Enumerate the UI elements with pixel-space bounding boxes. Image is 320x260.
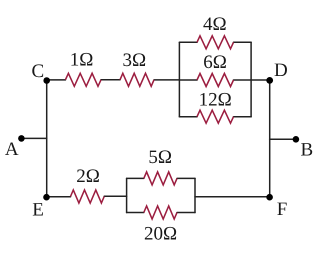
wire E to R2 [47, 196, 71, 198]
svg-text:B: B [300, 139, 313, 160]
node F junction dot [266, 194, 273, 201]
wire 5ohm row right stub [177, 177, 195, 179]
wire 5ohm row left stub [127, 177, 144, 179]
wire tap to terminal B [270, 138, 296, 140]
wire box to node D [251, 79, 270, 81]
resistor 20ohm [144, 206, 177, 219]
wire right rail of 5/20 parallel box [194, 178, 196, 212]
wire left rail of 5/20 parallel box [126, 178, 128, 212]
wire 4ohm row right stub [234, 41, 252, 43]
resistor 5ohm [144, 172, 177, 185]
wire C to R1 [47, 79, 66, 81]
svg-text:6Ω: 6Ω [203, 52, 227, 73]
wire 20ohm row left stub [127, 212, 144, 214]
resistor 12ohm [197, 110, 234, 123]
wire right rail of 4/6/12 parallel box [250, 42, 252, 116]
wire 6ohm row left stub [179, 79, 197, 81]
node C junction dot [43, 77, 50, 84]
wire 12ohm row left stub [179, 116, 197, 118]
node D junction dot [266, 77, 273, 84]
svg-text:2Ω: 2Ω [76, 166, 100, 187]
wire terminal A tap [21, 137, 46, 139]
wire left rail C to E [46, 80, 48, 197]
svg-text:F: F [277, 199, 288, 220]
svg-text:3Ω: 3Ω [122, 50, 146, 71]
wire R1 to R3 [101, 79, 120, 81]
svg-text:12Ω: 12Ω [199, 89, 232, 110]
wire 12ohm row right stub [234, 116, 252, 118]
svg-text:5Ω: 5Ω [148, 147, 172, 168]
resistor 2ohm [71, 190, 105, 203]
terminal A dot [18, 135, 25, 142]
resistor 3ohm [120, 73, 154, 86]
svg-text:1Ω: 1Ω [70, 49, 94, 70]
wire box to node F [195, 196, 270, 198]
wire 6ohm row right stub [234, 79, 252, 81]
wire left rail of 4/6/12 parallel box [178, 42, 180, 116]
wire right rail D to F [269, 80, 271, 197]
resistor 4ohm [197, 36, 234, 49]
resistor 6ohm [197, 74, 234, 87]
node E junction dot [43, 194, 50, 201]
svg-text:A: A [5, 139, 19, 160]
svg-text:E: E [32, 200, 44, 221]
wire 4ohm row left stub [179, 41, 197, 43]
svg-text:20Ω: 20Ω [144, 224, 177, 245]
resistor 1ohm [65, 73, 101, 86]
wire R3 to parallel box left rail [154, 79, 179, 81]
svg-text:4Ω: 4Ω [203, 14, 227, 35]
wire R2 to 5/20 parallel box [104, 195, 126, 197]
terminal B dot [293, 136, 300, 143]
svg-text:C: C [31, 61, 44, 82]
svg-text:D: D [274, 60, 288, 81]
wire 20ohm row right stub [177, 212, 195, 214]
